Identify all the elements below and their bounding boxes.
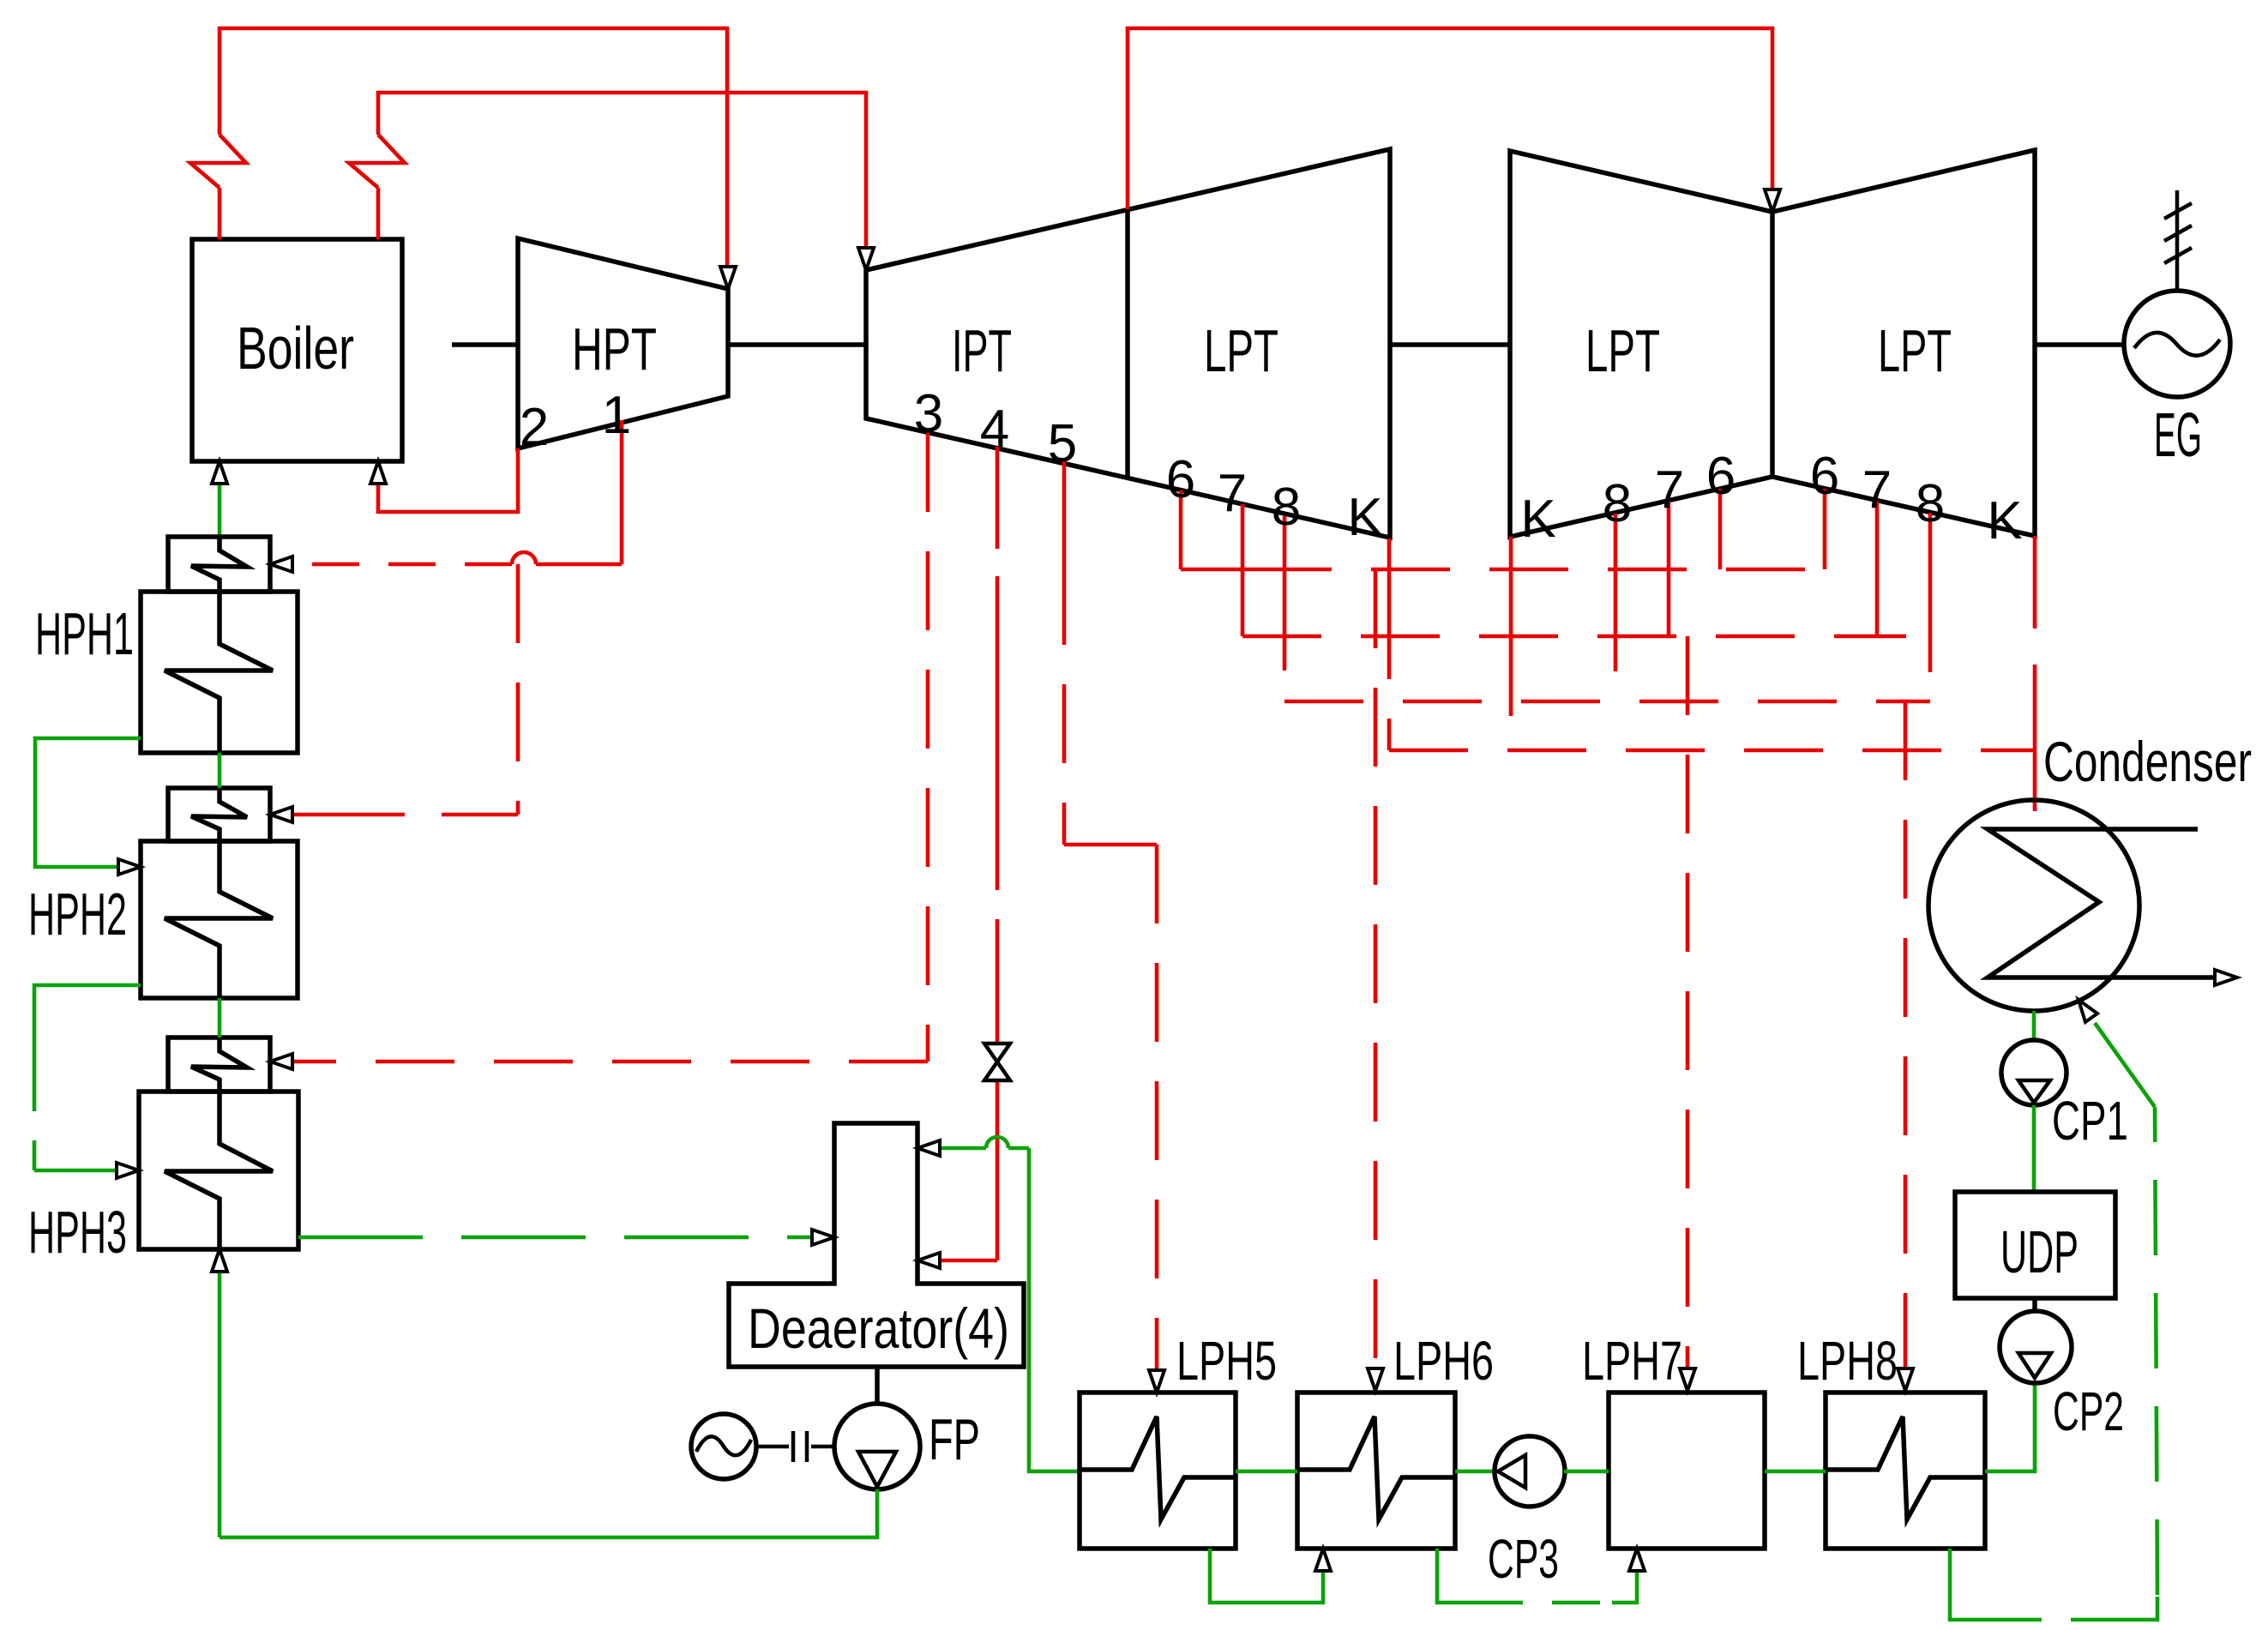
- shaft HPT to IPT: [728, 342, 866, 347]
- generator ground lead: [2175, 190, 2180, 291]
- wire crossover IPT exhaust to LPT inlet: [1128, 28, 1772, 209]
- arrow steam into HPH2: [270, 807, 292, 822]
- motor for FP: [691, 1414, 756, 1479]
- turbine LPT2+LPT3 body: [1510, 150, 2035, 537]
- arrow feedwater into boiler bottom: [212, 461, 227, 484]
- svg-text:UDP: UDP: [2000, 1218, 2078, 1285]
- wire condensate into deaerator with hop: [924, 1137, 1029, 1148]
- wire recirculation diagonal into condenser: [2095, 1023, 2155, 1107]
- wire condensate condenser to CP1: [2032, 1011, 2036, 1042]
- svg-text:6: 6: [1166, 450, 1195, 509]
- valve on extraction 4 line: [984, 1044, 1010, 1080]
- svg-text:LPH6: LPH6: [1393, 1330, 1494, 1392]
- shaft LPT1 to LPT2: [1390, 342, 1510, 347]
- generator ground ticks: [2164, 203, 2192, 263]
- svg-text:1: 1: [602, 386, 631, 445]
- wire condensate LPH6 to CP3: [1455, 1470, 1495, 1474]
- svg-text:HPH1: HPH1: [35, 600, 134, 667]
- wire extraction 4 into deaerator: [924, 1259, 997, 1263]
- svg-text:Boiler: Boiler: [237, 315, 354, 382]
- condenser cooling water zigzag: [1988, 829, 2215, 977]
- wire extraction 7 LPT1 drop: [1241, 504, 1245, 636]
- svg-text:4: 4: [980, 400, 1009, 459]
- arrow steam into LPH8: [1898, 1368, 1913, 1391]
- arrow feedwater into HPH3 bottom: [212, 1249, 227, 1272]
- boiler: [192, 239, 402, 461]
- pump CP3: [1495, 1436, 1565, 1507]
- wire condensate LPH7 to LPH8: [1765, 1470, 1826, 1474]
- connector deaerator to FP: [875, 1367, 880, 1404]
- arrow steam into LPH5: [1149, 1370, 1164, 1392]
- svg-text:8: 8: [1272, 478, 1301, 537]
- wire steam feed LPH5: [1155, 845, 1159, 1370]
- wire extraction 5 vertical: [1062, 461, 1067, 845]
- wire extraction 7 collector row: [1242, 635, 1906, 639]
- wire extraction 8 LPT2 drop: [1614, 514, 1618, 592]
- heater LPH5: [1080, 1392, 1236, 1549]
- pump CP1: [2001, 1040, 2066, 1105]
- connector UDP to CP2: [2032, 1298, 2037, 1312]
- condenser circle: [1928, 800, 2139, 1011]
- hop extraction 1 over cold reheat line: [512, 552, 536, 564]
- svg-text:6: 6: [1706, 447, 1736, 506]
- turbine HPT body: [518, 238, 728, 448]
- svg-text:LPT: LPT: [1878, 317, 1952, 384]
- turbine IPT+LPT1 body: [866, 149, 1390, 538]
- svg-text:CP3: CP3: [1488, 1528, 1559, 1590]
- svg-text:LPH8: LPH8: [1797, 1330, 1898, 1392]
- shaft stub left of HPT: [452, 342, 518, 347]
- svg-text:K: K: [1347, 488, 1382, 547]
- wire extraction 6 LPT3 drop: [1823, 489, 1827, 569]
- heater LPH8: [1826, 1392, 1985, 1549]
- heater LPH7: [1609, 1392, 1765, 1549]
- svg-text:5: 5: [1048, 414, 1077, 473]
- wire drain HPH3 to deaerator dashed: [298, 1236, 810, 1240]
- svg-text:Deaerator(4): Deaerator(4): [748, 1296, 1009, 1360]
- wire exhaust K LPT2 drop: [1509, 537, 1513, 750]
- wire feedwater riser into HPH3: [218, 1262, 222, 1537]
- arrow drain into LPH7: [1629, 1549, 1645, 1571]
- shaft LPT3 to EG: [2035, 342, 2125, 347]
- wire extraction 7 LPT2 drop: [1667, 501, 1671, 636]
- wire extraction 3 horizontal to HPH3: [292, 1060, 928, 1064]
- svg-text:7: 7: [1655, 460, 1684, 520]
- wire condensate LPH8 to CP2: [1985, 1382, 2035, 1471]
- svg-text:LPH5: LPH5: [1176, 1330, 1277, 1392]
- svg-text:7: 7: [1862, 460, 1892, 520]
- wire extraction 1 to HPH1 dashed part: [292, 562, 512, 567]
- svg-text:LPT: LPT: [1585, 317, 1660, 384]
- wire exhaust K LPT1 drop: [1387, 538, 1392, 600]
- heater HPH3: [139, 1038, 298, 1249]
- wire HPT exhaust steam to HPH2 vertical: [516, 564, 520, 815]
- arrow steam into IPT: [858, 248, 874, 270]
- wire extraction 6 collector row: [1181, 568, 1825, 572]
- generator EG circle: [2124, 291, 2230, 397]
- pump FP: [834, 1404, 920, 1489]
- wire drain HPH1 to HPH2: [35, 738, 141, 867]
- svg-text:IPT: IPT: [952, 317, 1012, 384]
- heater HPH2: [141, 788, 298, 998]
- svg-text:K: K: [1520, 490, 1555, 549]
- arrow crossover into LPT: [1765, 189, 1780, 212]
- wire condensate LPH5 to LPH6: [1236, 1470, 1297, 1474]
- svg-text:6: 6: [1810, 447, 1839, 506]
- svg-text:2: 2: [520, 398, 549, 457]
- wire drain LPH5 to LPH6: [1210, 1549, 1323, 1603]
- wire hot reheat boiler to IPT: [349, 93, 866, 248]
- wire feedwater HPH3 to HPH2: [218, 998, 222, 1038]
- coupling motor to FP: [756, 1431, 834, 1462]
- wire cold reheat HPT exhaust to boiler: [378, 448, 518, 512]
- wire extraction 1 from HPT: [620, 420, 624, 564]
- svg-text:LPH7: LPH7: [1582, 1330, 1682, 1392]
- wire condensate riser from LPH5: [1029, 1148, 1080, 1471]
- arrow steam into HPT: [720, 267, 736, 289]
- svg-text:8: 8: [1916, 474, 1945, 533]
- wire condensate CP1 to UDP: [2032, 1105, 2036, 1192]
- arrow steam into HPH3: [270, 1054, 292, 1069]
- svg-text:FP: FP: [929, 1407, 980, 1472]
- arrow drain into LPH6: [1315, 1549, 1331, 1571]
- heater HPH1: [141, 537, 298, 753]
- wire steam feed LPH8: [1904, 701, 1908, 1368]
- wire steam feed LPH7: [1686, 636, 1690, 1368]
- svg-text:LPT: LPT: [1204, 317, 1278, 384]
- wire exhaust K LPT3 into condenser: [2033, 536, 2037, 811]
- wire feedwater FP discharge: [220, 1489, 877, 1537]
- heater LPH6: [1297, 1392, 1455, 1549]
- arrow steam into HPH1: [270, 556, 292, 572]
- arrow steam into deaerator: [917, 1253, 940, 1268]
- svg-text:EG: EG: [2154, 401, 2202, 470]
- wire extraction 8 collector row: [1284, 700, 1930, 704]
- wire main steam boiler to HPT: [190, 28, 727, 267]
- wire extraction 3 vertical to HPH3: [926, 433, 930, 1062]
- UDP unit box: [1955, 1192, 2115, 1298]
- svg-text:K: K: [1987, 491, 2022, 550]
- arrow cooling water outlet: [2215, 970, 2237, 985]
- wire feedwater into boiler: [218, 473, 222, 537]
- wire extraction 4 to deaerator vertical: [996, 447, 1000, 1260]
- wire extraction 7 LPT3 drop: [1875, 501, 1880, 636]
- arrow drain into HPH3: [117, 1163, 139, 1178]
- svg-text:Condenser: Condenser: [2043, 730, 2252, 793]
- wire extraction 1 to HPH1 solid part with hop: [536, 562, 622, 567]
- wire steam feed LPH6: [1374, 569, 1378, 1368]
- arrow cold reheat into boiler bottom: [370, 461, 386, 484]
- svg-text:3: 3: [914, 384, 943, 443]
- wire extraction 6 LPT1 drop: [1179, 490, 1183, 569]
- wire drain LPH6 to LPH7: [1437, 1549, 1637, 1603]
- arrow drain into HPH2: [118, 859, 141, 875]
- wire extraction 8 LPT3 drop: [1928, 513, 1933, 593]
- svg-text:HPH3: HPH3: [28, 1199, 127, 1266]
- arrow steam into LPH6: [1368, 1368, 1383, 1391]
- wire extraction 6 LPT2 drop: [1718, 489, 1723, 569]
- wire extraction 8 LPT1 drop: [1283, 516, 1287, 592]
- wire recirculation riser to condenser dashed: [2155, 1107, 2157, 1595]
- svg-text:7: 7: [1218, 464, 1247, 523]
- wire feedwater HPH1 to boiler handled above, segment HPH2 to HPH1: [218, 753, 222, 788]
- wire extraction 5 jog to LPH5 column: [1064, 843, 1157, 847]
- arrow drain into deaerator: [812, 1230, 834, 1245]
- wire exhaust K collector row to condenser: [1389, 749, 2035, 753]
- svg-text:CP2: CP2: [2053, 1380, 2124, 1442]
- arrow steam into LPH7: [1680, 1368, 1695, 1391]
- svg-text:HPT: HPT: [572, 316, 657, 382]
- svg-text:CP1: CP1: [2052, 1090, 2128, 1152]
- svg-text:HPH2: HPH2: [28, 881, 127, 947]
- generator EG sine wave: [2134, 333, 2220, 356]
- svg-text:8: 8: [1603, 474, 1632, 533]
- arrow condensate into deaerator: [917, 1140, 940, 1156]
- wire drain HPH2 to HPH3: [34, 985, 141, 1170]
- wire drain LPH8 to condenser riser: [1950, 1549, 2157, 1620]
- wire condensate CP3 to LPH7: [1564, 1470, 1609, 1474]
- wire HPT exhaust steam to HPH2 horizontal: [292, 813, 518, 817]
- arrow recirculation into condenser: [2078, 1000, 2097, 1022]
- deaerator vessel: [729, 1123, 1024, 1367]
- pump CP2: [2000, 1311, 2072, 1383]
